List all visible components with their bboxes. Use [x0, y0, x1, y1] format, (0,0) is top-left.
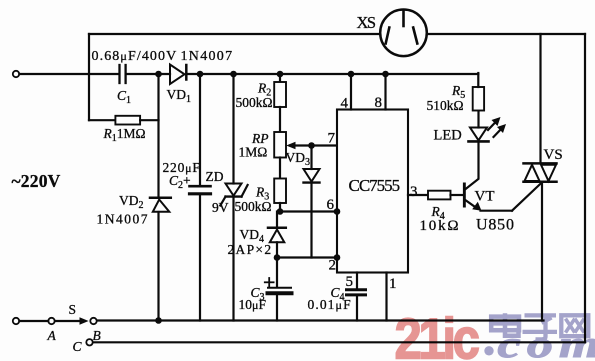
arrow RP wiper — [286, 142, 295, 149]
resistor R3 — [274, 179, 286, 204]
wire pin3 — [408, 194, 428, 196]
svg-text:4: 4 — [341, 96, 349, 112]
svg-text:6: 6 — [327, 197, 335, 213]
transistor VT collector — [465, 142, 479, 190]
watermark 网 — [561, 315, 588, 336]
wire C line — [93, 341, 585, 343]
svg-text:10kΩ: 10kΩ — [420, 218, 461, 234]
svg-text:R11MΩ: R11MΩ — [103, 126, 146, 144]
node mid rail / VD2 branch — [155, 71, 162, 78]
svg-text:500kΩ: 500kΩ — [235, 199, 272, 214]
wire pin8 — [384, 74, 386, 110]
LED D1 — [469, 111, 489, 142]
terminal B — [90, 318, 96, 324]
switch S blade A-B — [55, 320, 81, 322]
wire R3 bottom — [279, 203, 281, 212]
wire R5 top — [477, 73, 479, 87]
terminal bottom input — [13, 318, 19, 324]
svg-text:S: S — [69, 302, 77, 317]
wire pin4 — [350, 74, 352, 110]
svg-text:VD3: VD3 — [286, 150, 311, 168]
svg-text:0.68μF/400V: 0.68μF/400V — [92, 49, 178, 64]
node pin2 / C3 — [274, 254, 281, 261]
svg-text:8: 8 — [375, 95, 383, 111]
wire top rail left — [89, 33, 381, 35]
svg-text:CC7555: CC7555 — [349, 176, 400, 195]
capacitor C1 — [120, 65, 126, 83]
svg-text:10μF: 10μF — [239, 297, 267, 312]
wire pin7 — [290, 144, 337, 146]
svg-text:5: 5 — [346, 274, 354, 290]
capacitor C3 — [265, 258, 292, 321]
node mid rail / ZD branch — [230, 71, 237, 78]
svg-text:ZD: ZD — [206, 169, 224, 184]
svg-text:500kΩ: 500kΩ — [236, 95, 273, 110]
terminal A — [48, 318, 54, 324]
svg-text:510kΩ: 510kΩ — [427, 98, 464, 113]
triac VS top wire — [539, 34, 541, 163]
wire resistor column — [279, 74, 281, 82]
svg-text:VT: VT — [475, 189, 495, 205]
watermark 子 — [523, 315, 558, 339]
svg-text:9V: 9V — [212, 200, 229, 215]
node mid rail / pin4 — [348, 71, 355, 78]
wire bottom rail — [93, 319, 544, 321]
svg-text:XS: XS — [357, 13, 376, 32]
node mid rail / pin8 — [382, 71, 389, 78]
wire pin2 — [277, 256, 337, 258]
wire R4-base — [451, 194, 464, 196]
LED emission arrows — [488, 117, 506, 137]
wire input to A — [19, 320, 48, 322]
svg-text:1: 1 — [389, 276, 397, 292]
wire VD2 branch — [157, 74, 159, 197]
wire R1 left link — [89, 119, 115, 121]
triac VS — [524, 163, 557, 320]
svg-text:~220V: ~220V — [12, 171, 61, 191]
wire pin5 + capacitor C4 — [347, 273, 366, 321]
svg-text:C1: C1 — [117, 88, 131, 106]
wire right rail — [584, 34, 586, 342]
svg-text:LED: LED — [434, 128, 462, 144]
wire ZD branch — [232, 74, 234, 184]
svg-text:U850: U850 — [476, 217, 515, 234]
diode VD2 — [150, 198, 171, 212]
resistor R2 — [274, 82, 286, 107]
resistor R1 — [115, 116, 140, 125]
node pin6 at IC — [334, 208, 341, 215]
svg-text:C2+: C2+ — [169, 173, 191, 191]
svg-text:0.01μF: 0.01μF — [308, 297, 352, 312]
svg-text:21ic: 21ic — [395, 308, 480, 361]
resistor R4 — [428, 191, 451, 200]
node pin7 / VD3 — [308, 142, 315, 149]
svg-text:2AP×2: 2AP×2 — [228, 242, 273, 257]
node mid rail / C2 branch — [197, 71, 204, 78]
terminal C — [86, 339, 92, 345]
terminal input top — [13, 71, 19, 77]
svg-text:VD2: VD2 — [119, 193, 144, 211]
IC U1 CC7555 — [337, 110, 408, 273]
wire left branch vertical — [88, 34, 90, 120]
diode VD4 — [268, 212, 286, 258]
wire mid rail — [19, 73, 118, 75]
potentiometer RP — [274, 132, 286, 158]
svg-text:7: 7 — [328, 131, 336, 147]
transistor VT base bar — [463, 183, 466, 208]
svg-text:C: C — [73, 339, 83, 354]
node mid rail / R2 branch — [277, 71, 284, 78]
node pin2 at IC — [334, 254, 341, 261]
watermark dot of .com — [484, 346, 493, 355]
transistor VT emitter — [466, 182, 542, 211]
wire pin6 — [280, 210, 337, 212]
socket XS — [380, 10, 427, 57]
resistor R5 — [473, 87, 484, 111]
watermark 电 — [491, 313, 519, 336]
wire RP-R3 — [279, 158, 281, 179]
node bottom rail / VD2 — [155, 317, 162, 324]
zener ZD — [220, 184, 247, 206]
wire R2-RP — [279, 107, 281, 132]
svg-text:3: 3 — [410, 184, 418, 200]
wire C2 branch — [199, 74, 201, 185]
svg-text:B: B — [93, 328, 101, 343]
wire pin1 — [385, 273, 387, 321]
svg-text:1N4007: 1N4007 — [181, 49, 234, 64]
capacitor C2 — [190, 186, 211, 194]
wire top rail right — [427, 33, 586, 35]
diode VD3 — [304, 146, 320, 258]
wire R1 right link — [140, 119, 158, 121]
svg-text:A: A — [47, 328, 57, 343]
svg-text:VD1: VD1 — [167, 87, 192, 105]
diode VD1 — [170, 65, 186, 85]
svg-text:1N4007: 1N4007 — [97, 212, 150, 227]
svg-text:VS: VS — [544, 147, 563, 163]
svg-text:1MΩ: 1MΩ — [239, 145, 268, 160]
svg-text:2: 2 — [329, 258, 337, 274]
node pin6 / R3 — [277, 208, 284, 215]
